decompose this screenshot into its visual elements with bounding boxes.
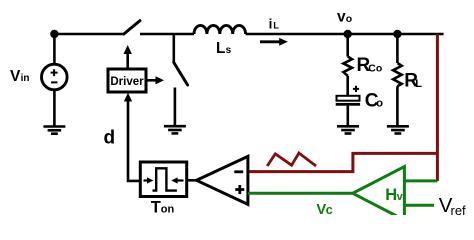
voltage source Vin bbox=[42, 64, 68, 90]
current arrow iL bbox=[260, 38, 288, 46]
svg-text:V: V bbox=[10, 68, 21, 85]
svg-text:v: v bbox=[337, 9, 346, 26]
label vo bbox=[337, 9, 352, 26]
drive arrow to S2 bbox=[146, 76, 164, 84]
label RL bbox=[404, 70, 422, 91]
wire d: Ton block output up to driver bbox=[124, 93, 141, 181]
svg-text:L: L bbox=[415, 78, 422, 90]
svg-text:ref: ref bbox=[451, 203, 467, 215]
switch S1 (high-side) bbox=[124, 21, 140, 34]
svg-text:d: d bbox=[104, 127, 116, 148]
node RL junction dot bbox=[393, 30, 401, 38]
ground (Vin) bbox=[43, 127, 65, 134]
ground (Co) bbox=[337, 126, 359, 133]
svg-text:c: c bbox=[326, 202, 333, 215]
label iL bbox=[269, 16, 280, 31]
svg-text:H: H bbox=[385, 186, 397, 204]
resistor RCo bbox=[343, 34, 352, 95]
resistor RL bbox=[393, 34, 402, 126]
node: Vin top junction dot bbox=[50, 30, 58, 38]
svg-text:on: on bbox=[161, 204, 175, 216]
label Hv bbox=[385, 186, 403, 204]
label RCo bbox=[357, 55, 383, 76]
svg-text:L: L bbox=[273, 20, 279, 31]
wire: comparator output to Ton block bbox=[187, 179, 197, 182]
label Ls bbox=[216, 40, 232, 57]
node Vo junction dot bbox=[344, 30, 352, 38]
svg-text:s: s bbox=[226, 45, 232, 56]
label Vref bbox=[439, 194, 466, 218]
comparator U1 bbox=[197, 156, 248, 204]
label Vc bbox=[316, 202, 332, 218]
svg-text:i: i bbox=[269, 16, 273, 31]
feedback wire: Vo sense vertical (dark red) bbox=[436, 34, 439, 181]
label Ton bbox=[151, 198, 175, 216]
wire: RL node to feedback corner bbox=[397, 33, 443, 36]
svg-text:Driver: Driver bbox=[110, 76, 144, 88]
svg-text:Co: Co bbox=[368, 62, 382, 74]
inductor Ls bbox=[194, 25, 246, 34]
ground (S2) bbox=[164, 126, 186, 133]
label Co bbox=[365, 91, 384, 112]
capacitor Co bbox=[336, 86, 360, 127]
svg-text:v: v bbox=[397, 191, 404, 203]
switch S2 (low-side) bbox=[174, 34, 188, 126]
svg-text:o: o bbox=[376, 98, 383, 110]
drive arrow to S1 bbox=[124, 45, 132, 69]
wire: Hv sense input from Vo line (green) bbox=[404, 179, 437, 182]
feedback wire: ramp to comparator inverting input (dark red) bbox=[248, 153, 438, 171]
Ton pulse block bbox=[140, 162, 186, 197]
ground (RL) bbox=[387, 126, 409, 133]
wire: inductor to node Vo bbox=[246, 33, 348, 36]
wire: Vo node to RL node bbox=[348, 33, 398, 36]
label Vin bbox=[10, 68, 29, 85]
wire: Vref input (green) bbox=[404, 204, 434, 207]
sawtooth ramp symbol bbox=[267, 153, 316, 166]
svg-text:o: o bbox=[346, 13, 352, 25]
svg-text:T: T bbox=[151, 198, 161, 215]
wire: source to ground bbox=[53, 90, 56, 127]
amplifier Hv (green) bbox=[353, 167, 405, 220]
driver block bbox=[108, 69, 146, 92]
wire: S1 to inductor bbox=[140, 33, 194, 36]
svg-text:L: L bbox=[216, 40, 225, 57]
svg-text:in: in bbox=[21, 73, 30, 84]
wire: Hv output Vc to comparator non-inverting input (green) bbox=[248, 192, 353, 195]
wire: Vin node down to source bbox=[53, 34, 56, 65]
wire: input rail from Vin node to switch S1 bbox=[54, 33, 124, 36]
